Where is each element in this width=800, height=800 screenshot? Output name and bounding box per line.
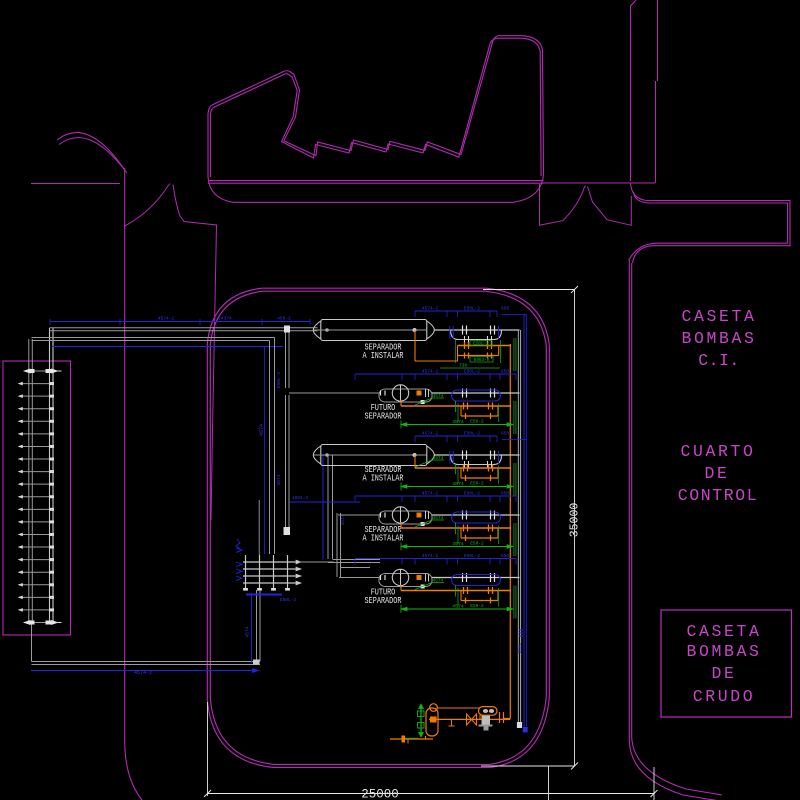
svg-text:4574: 4574 [340, 514, 346, 525]
svg-text:E50L-2: E50L-2 [276, 372, 282, 389]
svg-text:4574: 4574 [433, 515, 444, 521]
svg-text:4574-2: 4574-2 [134, 670, 152, 676]
svg-text:4574: 4574 [259, 424, 265, 436]
svg-text:650: 650 [501, 369, 509, 375]
svg-text:E50L-2: E50L-2 [464, 431, 481, 437]
svg-text:4574: 4574 [276, 474, 282, 485]
svg-text:650: 650 [501, 431, 509, 437]
svg-text:CASETA: CASETA [686, 622, 761, 641]
svg-text:DE: DE [711, 664, 736, 683]
svg-text:4574: 4574 [245, 626, 251, 637]
svg-text:4574: 4574 [433, 578, 444, 584]
svg-text:E50-2: E50-2 [470, 481, 484, 487]
svg-text:E50-2: E50-2 [470, 419, 484, 425]
svg-text:A INSTALAR: A INSTALAR [363, 473, 404, 484]
svg-text:4574: 4574 [433, 393, 444, 399]
svg-text:4574-2: 4574-2 [422, 306, 439, 312]
svg-text:E50L-2: E50L-2 [464, 553, 481, 559]
svg-text:650: 650 [501, 491, 509, 497]
svg-text:A INSTALAR: A INSTALAR [363, 350, 404, 361]
svg-text:CASETA: CASETA [681, 307, 756, 326]
svg-text:450-2: 450-2 [277, 316, 291, 322]
svg-text:4574-2: 4574-2 [422, 491, 439, 497]
svg-text:E50L-2: E50L-2 [473, 342, 489, 347]
svg-text:4574: 4574 [452, 481, 464, 487]
svg-text:4574: 4574 [452, 419, 464, 425]
svg-text:CRUDO: CRUDO [693, 687, 756, 706]
svg-text:E50-2: E50-2 [470, 541, 484, 547]
svg-text:C.I.: C.I. [698, 351, 740, 370]
svg-text:4574: 4574 [452, 541, 464, 547]
svg-text:4574-2: 4574-2 [158, 316, 175, 322]
svg-text:650: 650 [501, 306, 509, 312]
svg-text:25000: 25000 [361, 788, 399, 800]
svg-text:E50-2: E50-2 [470, 603, 484, 609]
svg-text:4574-2: 4574-2 [422, 431, 439, 437]
svg-text:E50L-2: E50L-2 [280, 597, 297, 603]
svg-text:E50L-2: E50L-2 [464, 491, 481, 497]
svg-text:4891-2: 4891-2 [292, 495, 309, 501]
svg-text:35000: 35000 [569, 503, 582, 538]
svg-text:SEPARADOR: SEPARADOR [365, 595, 402, 606]
svg-text:BOMBAS: BOMBAS [681, 329, 756, 348]
svg-text:SEPARADOR: SEPARADOR [365, 411, 402, 422]
svg-text:E50L: E50L [517, 642, 523, 653]
svg-text:DE: DE [704, 464, 729, 483]
svg-text:650: 650 [501, 553, 509, 559]
svg-text:A INSTALAR: A INSTALAR [363, 533, 404, 544]
svg-text:CONTROL: CONTROL [678, 486, 759, 505]
svg-text:4574: 4574 [452, 604, 464, 610]
svg-text:4574-2: 4574-2 [422, 369, 439, 375]
svg-text:8963-0: 8963-0 [474, 358, 490, 363]
svg-text:E50L-2: E50L-2 [464, 306, 481, 312]
svg-text:4574: 4574 [433, 455, 444, 461]
svg-text:E50L-2: E50L-2 [464, 369, 481, 375]
svg-text:BOMBAS: BOMBAS [686, 642, 761, 661]
svg-text:4574-2: 4574-2 [422, 553, 439, 559]
svg-text:CUARTO: CUARTO [680, 442, 755, 461]
svg-text:14374: 14374 [218, 316, 232, 322]
